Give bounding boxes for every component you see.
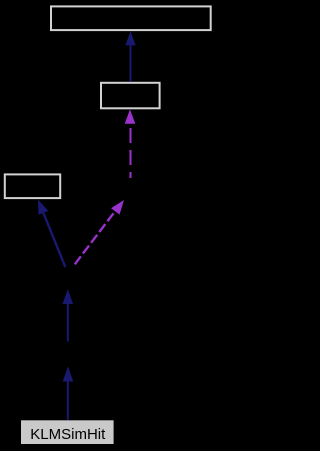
- usage arrow (dashed) label-to-middle: head: [125, 109, 136, 123]
- inheritance arrow vertical upper: head: [63, 289, 74, 304]
- usage arrow (dashed) label-to-middle: shaft: [130, 128, 132, 178]
- usage arrow (dashed) diagonal node-to-label: shaft: [75, 211, 115, 264]
- class box middle (TObject): [101, 83, 160, 109]
- inheritance arrow diagonal to left box: shaft: [43, 213, 65, 267]
- inheritance arrow diagonal to left box: head: [38, 200, 48, 215]
- class box top (base class): [51, 6, 211, 30]
- inheritance arrow middle-to-top: head: [125, 31, 135, 45]
- class box KLMSimHit (filled): [21, 420, 114, 444]
- class box left: [5, 174, 60, 198]
- inheritance arrow vertical upper: shaft: [67, 303, 69, 342]
- usage arrow (dashed) diagonal node-to-label: head: [111, 200, 124, 215]
- inheritance arrow middle-to-top: shaft: [130, 45, 132, 82]
- inheritance arrow vertical lower: shaft: [67, 381, 69, 420]
- inheritance arrow vertical lower: head: [63, 366, 74, 381]
- svg-text:KLMSimHit: KLMSimHit: [30, 426, 106, 443]
